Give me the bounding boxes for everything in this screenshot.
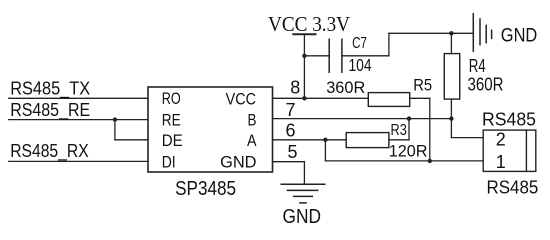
svg-text:VCC: VCC bbox=[226, 91, 256, 109]
wire RS485_RE to RE bbox=[9, 119, 148, 121]
wire C7 right bbox=[342, 55, 389, 57]
wire top to GND bbox=[389, 32, 473, 34]
svg-text:RE: RE bbox=[162, 112, 181, 130]
capacitor C7 plates bbox=[329, 39, 342, 72]
svg-text:8: 8 bbox=[290, 78, 300, 98]
wire pin 6 A line bbox=[273, 139, 347, 141]
svg-text:2: 2 bbox=[496, 129, 506, 149]
node R5-A junction bbox=[428, 159, 432, 163]
svg-text:RO: RO bbox=[162, 90, 181, 108]
node A junction bbox=[323, 138, 327, 142]
svg-text:104: 104 bbox=[349, 55, 372, 75]
wire R5 down to A line bbox=[429, 98, 431, 161]
node VCC-pin8 junction bbox=[302, 96, 306, 100]
connector J1 RS485 box bbox=[483, 130, 536, 171]
svg-text:C7: C7 bbox=[352, 35, 367, 52]
svg-text:DI: DI bbox=[162, 154, 176, 172]
wire RS485_TX to RO bbox=[9, 97, 148, 99]
svg-text:6: 6 bbox=[286, 121, 296, 141]
wire R4 top stem bbox=[450, 33, 452, 53]
wire B down to connector bbox=[450, 119, 452, 138]
wire R3 up to B bbox=[408, 119, 410, 140]
node R4-B junction bbox=[449, 116, 453, 120]
wire VCC to C7 bbox=[304, 55, 329, 57]
wire RS485_RX to DI bbox=[9, 160, 148, 162]
svg-text:RS485: RS485 bbox=[482, 109, 536, 130]
node VCC-C7 junction bbox=[302, 54, 306, 58]
wire pin 7 B line bbox=[273, 118, 452, 120]
node R3-B junction bbox=[407, 116, 411, 120]
svg-text:GND: GND bbox=[283, 206, 322, 228]
wire RE branch horizontal to DE bbox=[115, 139, 148, 141]
svg-text:SP3485: SP3485 bbox=[175, 177, 236, 200]
wire R5 right bbox=[410, 97, 430, 99]
wire R3 right bbox=[389, 139, 409, 141]
wire VCC stem bbox=[303, 34, 305, 98]
svg-text:GND: GND bbox=[220, 154, 256, 172]
svg-text:RS485_RE: RS485_RE bbox=[10, 100, 90, 121]
svg-text:VCC 3.3V: VCC 3.3V bbox=[268, 12, 350, 36]
svg-text:5: 5 bbox=[288, 142, 298, 162]
svg-text:120R: 120R bbox=[389, 142, 428, 161]
ground bottom bbox=[281, 184, 325, 203]
power VCC bar bbox=[293, 33, 315, 35]
svg-text:R5: R5 bbox=[413, 76, 432, 94]
svg-text:360R: 360R bbox=[326, 78, 365, 97]
IC U1 SP3485 body bbox=[148, 87, 273, 172]
node RE-DE junction bbox=[113, 117, 117, 121]
resistor R3 body bbox=[346, 133, 389, 148]
wire to connector pin 2 bbox=[451, 137, 483, 139]
node R4-GND junction bbox=[449, 31, 453, 35]
wire R4 bottom stem bbox=[450, 99, 452, 119]
svg-text:RS485: RS485 bbox=[487, 177, 539, 198]
wire RE branch vertical to DE bbox=[114, 120, 116, 140]
ground top right bbox=[473, 14, 491, 52]
wire A line to connector pin 1 bbox=[325, 160, 483, 162]
svg-text:B: B bbox=[248, 112, 257, 130]
svg-text:7: 7 bbox=[286, 100, 296, 120]
resistor R4 body bbox=[444, 54, 459, 100]
wire pin5 ground stem bbox=[303, 162, 305, 185]
svg-text:GND: GND bbox=[501, 26, 538, 47]
wire A junction down bbox=[324, 140, 326, 161]
wire pin 8 VCC bbox=[273, 97, 369, 99]
resistor R5 body bbox=[368, 93, 409, 107]
svg-text:RS485_RX: RS485_RX bbox=[10, 141, 89, 162]
svg-text:A: A bbox=[247, 132, 257, 150]
svg-text:R3: R3 bbox=[391, 122, 407, 139]
svg-text:R4: R4 bbox=[469, 56, 486, 76]
svg-text:DE: DE bbox=[162, 132, 183, 150]
svg-text:360R: 360R bbox=[468, 75, 504, 95]
svg-text:1: 1 bbox=[496, 152, 506, 172]
svg-text:RS485_TX: RS485_TX bbox=[10, 78, 90, 99]
wire pin 5 GND bbox=[273, 161, 305, 163]
wire C7 up bbox=[388, 33, 390, 56]
